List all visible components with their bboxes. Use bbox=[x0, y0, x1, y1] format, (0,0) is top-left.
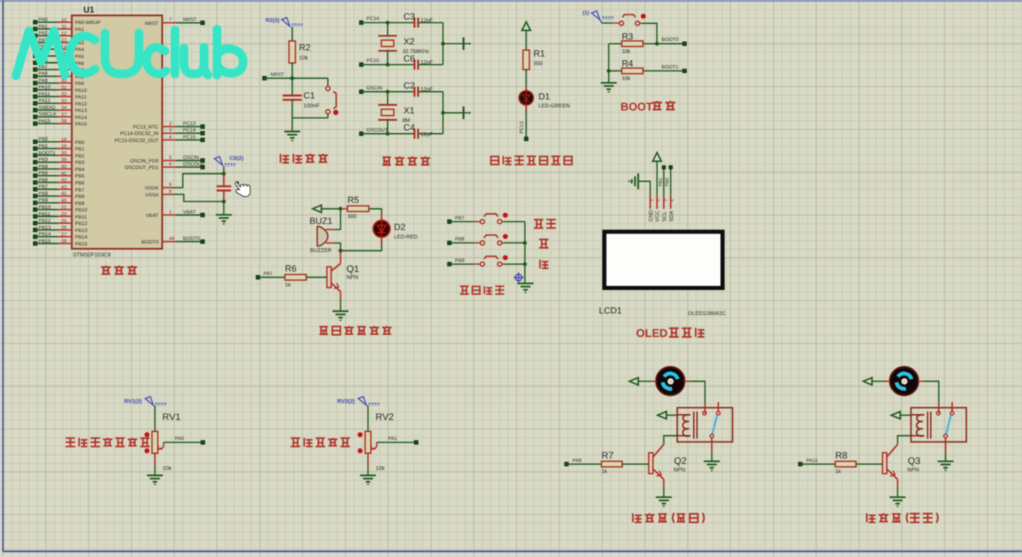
probe label (1) bbox=[583, 11, 614, 23]
wire button PB7 to bus bbox=[502, 221, 525, 223]
U1 pin 44 net BOOT0 bbox=[142, 236, 205, 246]
U1 pin 7 net NRST bbox=[145, 17, 205, 27]
capacitor C1 bbox=[283, 91, 320, 110]
wire C2 to rail bbox=[418, 91, 443, 93]
IC U1 STM32F103C8 body bbox=[72, 5, 162, 259]
label OLED显示屏 bbox=[636, 328, 704, 340]
capacitor C5 bbox=[217, 174, 232, 202]
svg-text:PB8: PB8 bbox=[455, 237, 465, 243]
wire PB8 to button bbox=[449, 242, 480, 244]
ground relay contact Q2 bbox=[704, 438, 720, 471]
button BOOT bbox=[619, 14, 645, 26]
svg-text:VBAT: VBAT bbox=[146, 213, 159, 219]
svg-text:PB6: PB6 bbox=[75, 180, 85, 186]
ground Q2 bbox=[656, 488, 672, 508]
svg-text:SCL: SCL bbox=[662, 211, 668, 222]
U1 pin 19 net PB1 bbox=[33, 143, 84, 152]
U1 pin 30 net PA9 bbox=[33, 78, 84, 87]
svg-text:1k: 1k bbox=[285, 282, 291, 288]
wire coil to Q2 collector bbox=[664, 436, 677, 445]
potentiometer RV2 bbox=[358, 412, 394, 472]
capacitor C6 bbox=[404, 54, 434, 70]
motor fan Q2 load bbox=[656, 367, 685, 396]
ground OLED bbox=[628, 173, 650, 195]
button PB8 bbox=[480, 234, 508, 245]
potentiometer RV1 bbox=[145, 412, 181, 472]
svg-text:OSCOUT: OSCOUT bbox=[367, 127, 388, 133]
svg-text:PB8: PB8 bbox=[75, 194, 85, 200]
junction bus PB9 bbox=[523, 262, 527, 266]
svg-text:OSCOUT: OSCOUT bbox=[183, 162, 204, 168]
ground C5 bbox=[216, 215, 232, 225]
svg-text:X2: X2 bbox=[404, 37, 415, 47]
U1 pin 1 net VBAT bbox=[146, 209, 205, 219]
svg-text:SDA: SDA bbox=[669, 210, 675, 221]
svg-text:C4: C4 bbox=[404, 123, 416, 133]
svg-text:13: 13 bbox=[61, 38, 67, 44]
svg-text:PA10: PA10 bbox=[75, 88, 87, 94]
U1 pin 41 net PB5 bbox=[33, 171, 84, 180]
wire NRST to C1 bbox=[291, 78, 293, 95]
button reset bbox=[326, 78, 339, 118]
svg-text:PB10: PB10 bbox=[39, 205, 51, 211]
label 甲醛值调节 bbox=[291, 438, 350, 447]
svg-text:PB0: PB0 bbox=[665, 177, 670, 186]
svg-text:PB13: PB13 bbox=[39, 225, 51, 231]
svg-text:PA15: PA15 bbox=[75, 122, 87, 128]
svg-text:2: 2 bbox=[169, 121, 172, 127]
svg-text:NRST: NRST bbox=[145, 21, 159, 27]
U1 pin 11 net PA1 bbox=[33, 24, 84, 33]
U1 pin 14 net PA4 bbox=[33, 44, 84, 53]
svg-text:28: 28 bbox=[61, 239, 67, 245]
wire X1 right rail bbox=[442, 92, 444, 134]
U1 pin 33 net PA12 bbox=[33, 98, 87, 107]
wire C1 to bottom bbox=[291, 100, 293, 118]
label 程序运行指示灯 bbox=[490, 156, 573, 165]
svg-text:R1: R1 bbox=[534, 49, 546, 59]
svg-text:8: 8 bbox=[169, 189, 172, 195]
svg-text:C1: C1 bbox=[304, 91, 316, 101]
power arrow OLED VCC bbox=[653, 153, 662, 196]
svg-text:D1: D1 bbox=[539, 92, 551, 102]
label 设置 bbox=[534, 220, 556, 228]
wire probe to R2 bbox=[291, 27, 293, 41]
svg-text:LED-GREEN: LED-GREEN bbox=[539, 104, 571, 110]
U1 pin 15 net PA5 bbox=[33, 51, 84, 60]
svg-text:RV1(2): RV1(2) bbox=[124, 398, 142, 405]
wire C3 to rail bbox=[418, 22, 443, 24]
wire bottom horizontal bbox=[292, 117, 328, 119]
node PB8 bbox=[448, 237, 465, 245]
buzzer BUZ1 bbox=[310, 216, 335, 254]
resistor R4 bbox=[609, 59, 643, 82]
svg-text:(1): (1) bbox=[583, 11, 590, 17]
svg-text:PC13: PC13 bbox=[519, 121, 525, 133]
svg-text:NRST: NRST bbox=[183, 17, 197, 23]
junction bus PB8 bbox=[523, 241, 527, 245]
svg-text:RV1: RV1 bbox=[162, 412, 180, 423]
svg-text:11: 11 bbox=[62, 24, 67, 30]
svg-text:26: 26 bbox=[61, 225, 67, 231]
svg-text:31: 31 bbox=[61, 85, 67, 91]
svg-text:46: 46 bbox=[61, 198, 67, 204]
U1 pin 3 net PC14 bbox=[120, 128, 204, 138]
power arrow coil Q3 bbox=[891, 412, 911, 419]
svg-text:NPN: NPN bbox=[347, 275, 359, 281]
resistor R1 bbox=[523, 49, 545, 70]
wire PC15 to C6 bbox=[361, 64, 414, 66]
svg-text:GND: GND bbox=[648, 210, 654, 222]
U1 pin 10 net PA0 bbox=[33, 17, 101, 26]
svg-text:PB4: PB4 bbox=[75, 167, 85, 173]
svg-text:PC14: PC14 bbox=[183, 128, 196, 134]
svg-text:R3: R3 bbox=[622, 32, 634, 42]
resistor R3 bbox=[609, 32, 657, 55]
svg-text:PB15: PB15 bbox=[39, 238, 51, 244]
svg-text:PA2: PA2 bbox=[39, 31, 48, 37]
svg-text:LED-RED: LED-RED bbox=[394, 235, 418, 241]
label 减 bbox=[540, 260, 548, 269]
wire button PB8 to bus bbox=[502, 242, 525, 244]
junction Q1 collector bbox=[339, 249, 343, 253]
svg-text:PA10: PA10 bbox=[39, 85, 51, 91]
capacitor C4 bbox=[404, 123, 434, 139]
svg-text:OLED12864I2C: OLED12864I2C bbox=[688, 311, 726, 317]
wire C5 to ground bbox=[223, 202, 225, 215]
svg-text:PB1: PB1 bbox=[658, 177, 663, 186]
svg-text:PC13: PC13 bbox=[183, 121, 196, 127]
svg-text:C6: C6 bbox=[404, 54, 416, 64]
power arrow coil Q2 bbox=[658, 412, 678, 419]
svg-text:OSCOUT_PD1: OSCOUT_PD1 bbox=[125, 165, 159, 171]
svg-text:D2: D2 bbox=[394, 222, 406, 232]
svg-text:PB0: PB0 bbox=[39, 137, 49, 143]
svg-text:R4: R4 bbox=[622, 59, 634, 69]
svg-text:10: 10 bbox=[61, 17, 67, 23]
node PC14 bbox=[360, 16, 380, 24]
power arrow alarm bbox=[313, 205, 322, 212]
svg-text:21: 21 bbox=[61, 205, 67, 211]
wire R3-R4 left bbox=[608, 44, 610, 71]
wire arrow to motor Q2 bbox=[638, 380, 656, 382]
svg-text:PB15: PB15 bbox=[75, 242, 87, 248]
node PC13 terminal bbox=[524, 137, 528, 141]
label 主芯片 bbox=[101, 266, 137, 275]
U1 pin 38 net PA15 bbox=[33, 119, 87, 128]
svg-text:PA9: PA9 bbox=[39, 78, 48, 84]
label 声光报警电路 bbox=[319, 326, 391, 335]
net BOOT0 bbox=[657, 37, 686, 45]
wire D2 to junction bbox=[341, 237, 382, 251]
junction R5 left bbox=[339, 207, 343, 211]
ground RV1 bbox=[147, 475, 163, 485]
junction PC14/X2 bbox=[386, 21, 390, 25]
svg-text:Q1: Q1 bbox=[347, 264, 360, 275]
motor fan Q3 load bbox=[890, 367, 919, 396]
svg-text:33: 33 bbox=[61, 98, 67, 104]
svg-text:34: 34 bbox=[61, 105, 67, 111]
ground relay contact Q3 bbox=[938, 438, 954, 471]
U1 pin 2 net PC13 bbox=[133, 121, 204, 131]
U1 pin 28 net PB15 bbox=[33, 238, 87, 247]
svg-text:RV2: RV2 bbox=[376, 412, 394, 423]
button PB9 bbox=[480, 255, 508, 266]
svg-text:PA9: PA9 bbox=[75, 81, 84, 87]
svg-text:27: 27 bbox=[61, 232, 67, 238]
label 继电器(风扇) bbox=[633, 513, 704, 523]
svg-text:PB14: PB14 bbox=[39, 232, 51, 238]
node PB9 bbox=[448, 258, 465, 266]
probe label C5(2) bbox=[214, 155, 243, 166]
display LCD1 OLED12864I2C bbox=[599, 230, 726, 317]
junction R3 BOOT0 bbox=[655, 42, 659, 46]
wire D1 to PC13 bbox=[519, 105, 526, 139]
relay RL Q2 bbox=[677, 402, 732, 442]
svg-text:41: 41 bbox=[61, 171, 67, 177]
svg-text:BOOT1: BOOT1 bbox=[662, 64, 679, 70]
U1 pin 32 net PA11 bbox=[33, 91, 86, 100]
svg-text:PB3: PB3 bbox=[39, 157, 49, 163]
probe label RV1(2) bbox=[124, 397, 166, 406]
svg-text:PA0: PA0 bbox=[39, 17, 48, 23]
node OSCOUT bbox=[360, 127, 388, 135]
svg-text:PB3: PB3 bbox=[75, 160, 85, 166]
ground BOOT bbox=[601, 71, 617, 93]
svg-text:PB11: PB11 bbox=[39, 211, 51, 217]
svg-text:PA0-WKUP: PA0-WKUP bbox=[75, 20, 101, 26]
svg-text:38: 38 bbox=[61, 119, 67, 125]
svg-text:PB7: PB7 bbox=[39, 184, 49, 190]
label 加 bbox=[539, 239, 549, 247]
label 独立按键 bbox=[460, 286, 504, 294]
svg-text:PA15: PA15 bbox=[39, 119, 51, 125]
wire arrow to motor Q3 bbox=[872, 380, 890, 382]
resistor R6 bbox=[256, 264, 327, 289]
svg-text:1k: 1k bbox=[602, 469, 608, 475]
svg-text:PB1: PB1 bbox=[75, 147, 85, 153]
wire power to R1 bbox=[525, 30, 527, 50]
node PB7 bbox=[448, 215, 465, 223]
svg-text:6: 6 bbox=[169, 162, 172, 168]
resistor R8 bbox=[799, 450, 883, 474]
svg-text:PA12: PA12 bbox=[39, 98, 51, 104]
net BOOT1 bbox=[643, 64, 686, 72]
wire buzzer bottom bbox=[335, 243, 341, 251]
svg-text:PB8: PB8 bbox=[39, 191, 49, 197]
resistor R2 bbox=[289, 41, 311, 63]
svg-text:1k: 1k bbox=[835, 469, 841, 475]
svg-text:12pF: 12pF bbox=[421, 132, 434, 138]
ground Q1 bbox=[333, 299, 349, 322]
svg-text:U1: U1 bbox=[83, 5, 94, 15]
ground reset bbox=[284, 118, 300, 142]
resistor R5 bbox=[341, 195, 369, 220]
svg-text:BOOT1: BOOT1 bbox=[39, 150, 56, 156]
svg-text:C2: C2 bbox=[404, 81, 416, 91]
svg-text:PB9: PB9 bbox=[39, 198, 49, 204]
svg-text:BUZZER: BUZZER bbox=[310, 248, 332, 254]
junction OSCOUT/X1 bbox=[386, 132, 390, 136]
svg-text:OLED: OLED bbox=[636, 328, 668, 340]
svg-text:PB1: PB1 bbox=[39, 143, 49, 149]
svg-text:44: 44 bbox=[169, 236, 175, 242]
svg-text:PB12: PB12 bbox=[39, 218, 51, 224]
svg-text:PA0: PA0 bbox=[175, 436, 184, 442]
svg-text:3: 3 bbox=[169, 128, 172, 134]
svg-text:PC15: PC15 bbox=[367, 58, 380, 64]
svg-text:R6: R6 bbox=[285, 264, 297, 274]
svg-text:PA11: PA11 bbox=[75, 95, 87, 101]
svg-text:R7: R7 bbox=[602, 450, 614, 461]
svg-text:45: 45 bbox=[61, 191, 67, 197]
svg-text:10k: 10k bbox=[299, 55, 308, 62]
svg-text:PC14-OSC32_IN: PC14-OSC32_IN bbox=[120, 131, 159, 137]
svg-text:R2: R2 bbox=[299, 43, 311, 53]
svg-text:R8: R8 bbox=[835, 450, 847, 461]
U1 pin 17 net PA7 bbox=[33, 64, 84, 73]
svg-text:PB14: PB14 bbox=[75, 235, 87, 241]
U1 pin 45 net PB8 bbox=[33, 191, 84, 200]
LCD1 pins bbox=[648, 195, 675, 222]
svg-text:PA13: PA13 bbox=[75, 108, 87, 114]
power rail X1 bbox=[443, 107, 471, 120]
wire button PB9 to bus bbox=[502, 263, 525, 265]
wire OSCIN to C2 bbox=[361, 91, 414, 93]
transistor Q1 NPN bbox=[327, 251, 359, 299]
svg-text:PA14: PA14 bbox=[75, 115, 87, 121]
wire PC14 to C3 bbox=[361, 22, 414, 24]
svg-text:BOOT0: BOOT0 bbox=[662, 37, 679, 43]
node PB1 SCL bbox=[658, 166, 666, 196]
svg-text:5: 5 bbox=[169, 155, 172, 161]
probe label R2(2) bbox=[266, 17, 303, 26]
U1 pin 12 net PA2 bbox=[33, 31, 84, 40]
wire OSCOUT-C5 vertical bbox=[223, 167, 225, 174]
svg-text:PB5: PB5 bbox=[39, 171, 49, 177]
svg-text:18: 18 bbox=[61, 137, 67, 143]
U1 pin 9 VDDA wire to C5 bbox=[145, 174, 224, 192]
svg-text:10k: 10k bbox=[622, 76, 631, 82]
svg-text:PC13_RTC: PC13_RTC bbox=[133, 125, 159, 131]
wire C6 to rail bbox=[418, 64, 443, 66]
wire RV2 to ground bbox=[367, 453, 369, 475]
node OSCIN bbox=[360, 85, 383, 93]
svg-text:PC14: PC14 bbox=[367, 16, 380, 22]
mouse cursor bbox=[235, 182, 250, 197]
svg-text:Q3: Q3 bbox=[908, 456, 921, 467]
junction X2 rail bbox=[441, 42, 445, 46]
wire buzzer top bbox=[335, 209, 341, 230]
resistor R7 bbox=[565, 450, 649, 474]
U1 pin 43 net PB7 bbox=[33, 184, 84, 193]
crystal X1 bbox=[378, 92, 414, 134]
U1 pin 40 net PB4 bbox=[33, 164, 84, 173]
relay RL Q3 bbox=[911, 402, 966, 442]
svg-text:PB9: PB9 bbox=[75, 201, 85, 207]
wire button to R3 bbox=[640, 23, 657, 43]
svg-text:100nF: 100nF bbox=[304, 104, 320, 110]
U1 pin 37 net SWCLK bbox=[33, 112, 87, 121]
junction R4 left bbox=[607, 69, 611, 73]
node PC15 bbox=[360, 58, 380, 66]
svg-text:PA4: PA4 bbox=[75, 47, 84, 53]
power arrow motor Q2 bbox=[629, 378, 638, 385]
svg-text:C5(2): C5(2) bbox=[230, 155, 244, 162]
svg-text:10k: 10k bbox=[376, 465, 385, 472]
U1 pin 21 net PB10 bbox=[33, 205, 87, 214]
U1 pin 20 net BOOT1 bbox=[33, 150, 84, 159]
wire coil to Q3 collector bbox=[898, 436, 911, 445]
svg-text:RV2(2): RV2(2) bbox=[337, 398, 355, 405]
probe label RV2(2) bbox=[337, 397, 379, 406]
svg-text:X1: X1 bbox=[404, 106, 415, 116]
label 继电器(净化) bbox=[867, 513, 938, 523]
svg-text:9: 9 bbox=[169, 182, 172, 188]
U1 pin 46 net PB9 bbox=[33, 198, 84, 207]
junction C5 top bbox=[222, 172, 226, 176]
svg-text:25: 25 bbox=[61, 218, 67, 224]
U1 pin 8 VSSA wire to C5 bbox=[145, 189, 224, 202]
capacitor C3 bbox=[404, 12, 434, 28]
U1 pin 16 net PA6 bbox=[33, 58, 84, 67]
svg-text:4: 4 bbox=[169, 134, 172, 140]
junction PC15/X2 bbox=[386, 63, 390, 67]
svg-text:BUZ1: BUZ1 bbox=[310, 216, 333, 226]
svg-text:PB7: PB7 bbox=[455, 215, 465, 221]
svg-text:VSSA: VSSA bbox=[145, 192, 159, 198]
transistor Q3 NPN bbox=[883, 444, 921, 487]
svg-text:39: 39 bbox=[61, 157, 67, 163]
svg-text:VCC: VCC bbox=[655, 210, 661, 221]
junction C5 bottom bbox=[222, 200, 226, 204]
capacitor C2 bbox=[404, 81, 434, 97]
wire X2 right rail bbox=[442, 23, 444, 65]
svg-text:10k: 10k bbox=[163, 465, 172, 472]
wire motor to relay Q2 bbox=[684, 381, 705, 413]
LED D2 LED-RED bbox=[373, 221, 417, 241]
wire OSCOUT to C4 bbox=[361, 133, 414, 135]
svg-text:SWDIO: SWDIO bbox=[39, 105, 56, 111]
svg-text:OSCIN_PD0: OSCIN_PD0 bbox=[130, 159, 159, 165]
junction OSCIN/X1 bbox=[386, 90, 390, 94]
wire probe to boot button bbox=[602, 22, 620, 24]
svg-text:PB0: PB0 bbox=[75, 140, 85, 146]
svg-text:BOOT0: BOOT0 bbox=[183, 236, 200, 242]
wire arrow to R5 bbox=[322, 208, 341, 210]
wire probe to RV1 bbox=[154, 406, 156, 432]
button PB7 bbox=[480, 213, 508, 224]
origin marker bbox=[514, 273, 524, 283]
power arrow D1 bbox=[522, 22, 531, 31]
power arrow motor Q3 bbox=[863, 378, 872, 385]
ground Q3 bbox=[890, 488, 906, 508]
ground keys bbox=[518, 283, 534, 293]
U1 pin 18 net PB0 bbox=[33, 137, 84, 146]
svg-text:LCD1: LCD1 bbox=[599, 306, 622, 316]
svg-text:PB12: PB12 bbox=[75, 221, 87, 227]
label 晶振电路 bbox=[382, 156, 430, 165]
svg-text:PA8: PA8 bbox=[39, 71, 48, 77]
crystal X2 bbox=[378, 23, 429, 65]
svg-text:VDDA: VDDA bbox=[145, 186, 160, 192]
svg-text:40: 40 bbox=[61, 164, 67, 170]
svg-text:C3: C3 bbox=[404, 12, 416, 22]
svg-text:PB9: PB9 bbox=[455, 258, 465, 264]
U1 pin 26 net PB13 bbox=[33, 225, 87, 234]
svg-text:PA1: PA1 bbox=[388, 436, 397, 442]
svg-text:PB13: PB13 bbox=[75, 228, 87, 234]
